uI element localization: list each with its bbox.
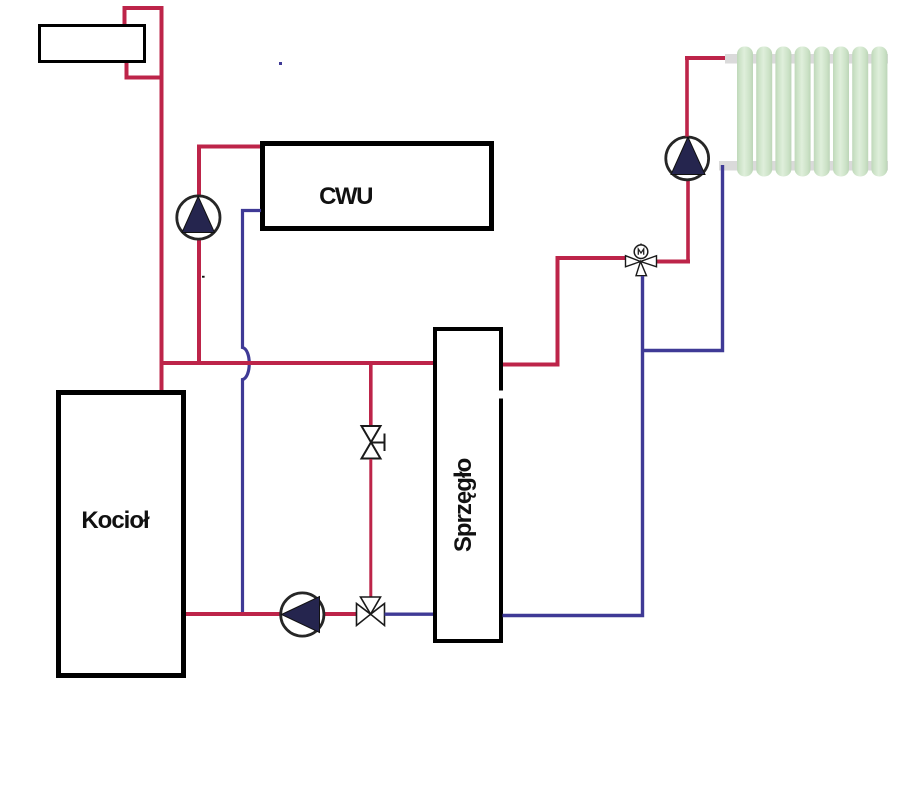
- motor M of valve V3: [634, 244, 648, 259]
- wire: red vertical pump P2 up: [685, 58, 689, 137]
- node: small black tick: [202, 276, 205, 278]
- wire: red vertical up: [556, 258, 560, 366]
- wire: red from valve V3 right: [657, 260, 691, 264]
- wire: red pipe from vessel top up and right: [125, 8, 164, 26]
- radiator: [719, 47, 888, 177]
- hydraulic separator Sprzeglo: [435, 329, 501, 641]
- wire: blue return from CWU tank down (with hop over red header): [243, 211, 262, 614]
- valve V1 (2-way, vertical): [362, 426, 385, 459]
- pump P3: [281, 593, 324, 636]
- wire: red pipe from pump P1 down to main header: [197, 240, 201, 364]
- wire: blue return from radiator bottom: [643, 165, 723, 351]
- svg-text:Sprzęgło: Sprzęgło: [450, 458, 477, 552]
- wire: main red header horizontal: [160, 361, 436, 365]
- wire: red pipe to CWU tank: [199, 147, 261, 197]
- notch on separator border: [498, 391, 507, 399]
- wire: red pipe boiler to pump P3: [186, 612, 282, 616]
- wire: red horizontal to mixing valve V3: [556, 256, 626, 260]
- wire: red supply from separator right: [503, 363, 560, 367]
- boiler Kociol: [59, 393, 184, 676]
- wire: blue from valve V3 bottom down to separator: [503, 276, 643, 616]
- wire: red vertical up to pump P2: [686, 180, 690, 262]
- CWU tank: [263, 144, 492, 229]
- wire: red bypass branch down to valve V1: [369, 363, 373, 426]
- wire: red horizontal to radiator: [685, 56, 727, 60]
- wire: main red supply vertical from top to boiler: [160, 6, 164, 390]
- svg-text:Kocioł: Kocioł: [81, 507, 150, 534]
- wire: red pipe pump P3 to valve V2: [324, 612, 357, 616]
- expansion vessel: [40, 26, 145, 62]
- wire: red pipe from vessel bottom down and right: [127, 62, 164, 78]
- pump P2: [666, 137, 709, 180]
- wire: red from valve V1 down to 3-way valve V2: [369, 459, 372, 598]
- valve V2 (3-way): [357, 597, 385, 626]
- valve V3 (motorized 3-way mixing): [626, 256, 657, 276]
- wire: blue pipe valve V2 to Sprzeglo: [385, 613, 436, 616]
- svg-text:CWU: CWU: [319, 183, 372, 210]
- pump P1: [177, 196, 220, 239]
- node: small blue dot: [279, 62, 282, 65]
